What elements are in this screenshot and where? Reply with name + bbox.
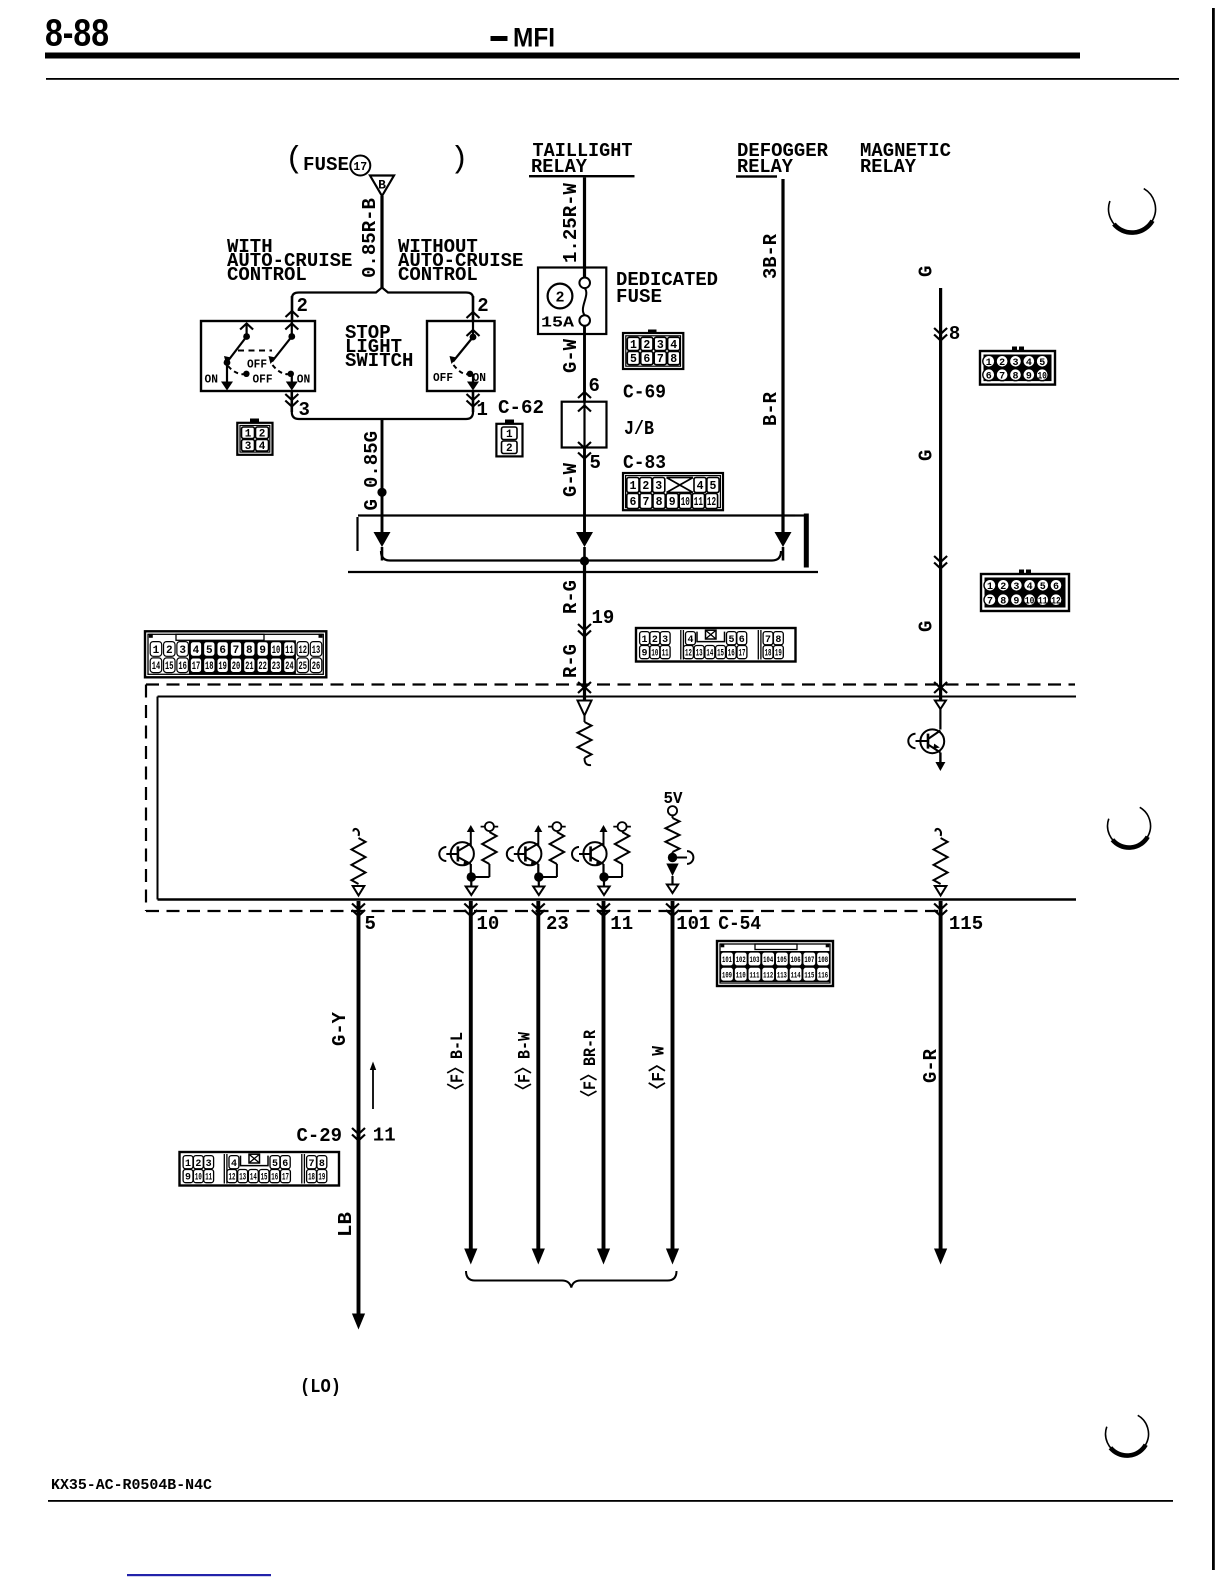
wire <F> B-L bbox=[464, 901, 477, 1265]
ECU pin 23 crossing bbox=[532, 904, 545, 917]
svg-text:12: 12 bbox=[685, 649, 692, 660]
svg-text:17: 17 bbox=[739, 649, 746, 660]
svg-text:10: 10 bbox=[272, 645, 281, 657]
transistor circuit pin 11 bbox=[572, 822, 631, 895]
svg-text:14: 14 bbox=[706, 649, 713, 660]
svg-text:13: 13 bbox=[696, 649, 703, 660]
svg-text:7: 7 bbox=[643, 496, 650, 509]
svg-text:6: 6 bbox=[282, 1159, 288, 1170]
svg-text:12: 12 bbox=[1051, 596, 1061, 607]
svg-text:109: 109 bbox=[722, 970, 732, 980]
svg-text:G-W: G-W bbox=[560, 462, 582, 497]
svg-text:2: 2 bbox=[477, 295, 488, 317]
svg-text:10: 10 bbox=[1025, 596, 1035, 607]
bus junction dot bbox=[580, 556, 589, 565]
svg-text:7: 7 bbox=[765, 635, 771, 646]
svg-text:101: 101 bbox=[722, 955, 732, 965]
svg-text:104: 104 bbox=[763, 955, 773, 965]
svg-text:OFF: OFF bbox=[253, 374, 273, 387]
svg-text:19: 19 bbox=[318, 1173, 325, 1184]
svg-text:14: 14 bbox=[152, 661, 161, 673]
svg-text:8: 8 bbox=[246, 645, 253, 657]
fusible link B symbol bbox=[370, 176, 394, 197]
svg-text:5: 5 bbox=[1040, 582, 1046, 593]
wire <F> B-W bbox=[532, 901, 545, 1265]
svg-text:24: 24 bbox=[285, 661, 294, 673]
svg-text:7: 7 bbox=[999, 371, 1005, 382]
svg-text:7: 7 bbox=[657, 353, 664, 366]
svg-text:10: 10 bbox=[477, 913, 500, 935]
svg-text:9: 9 bbox=[669, 496, 676, 509]
svg-text:10: 10 bbox=[1037, 371, 1047, 382]
connector C-69 bbox=[623, 330, 683, 370]
connector C-54 bbox=[717, 941, 833, 986]
svg-text:12: 12 bbox=[298, 645, 307, 657]
svg-text:1: 1 bbox=[987, 582, 993, 593]
wire through JB bbox=[578, 402, 591, 448]
svg-text:6: 6 bbox=[643, 353, 650, 366]
svg-text:10: 10 bbox=[651, 649, 658, 660]
svg-text:SWITCH: SWITCH bbox=[345, 350, 413, 372]
wire 0.85R-B from fuse bbox=[380, 196, 383, 289]
svg-text:1: 1 bbox=[642, 635, 648, 646]
svg-text:10: 10 bbox=[195, 1173, 202, 1184]
svg-text:101: 101 bbox=[676, 913, 710, 935]
stop light switch box without a/c bbox=[427, 321, 495, 391]
svg-text:5: 5 bbox=[590, 452, 601, 474]
svg-text:CONTROL: CONTROL bbox=[227, 264, 307, 286]
svg-text:ON: ON bbox=[297, 374, 311, 387]
svg-text:3: 3 bbox=[662, 635, 668, 646]
svg-text:C-62: C-62 bbox=[498, 397, 544, 419]
svg-text:8: 8 bbox=[1000, 596, 1006, 607]
svg-text:1: 1 bbox=[477, 399, 488, 421]
bus top rail bbox=[358, 516, 796, 552]
svg-text:4: 4 bbox=[259, 441, 266, 453]
svg-text:4: 4 bbox=[193, 645, 200, 657]
switch pole (without a/c) bbox=[450, 321, 480, 391]
svg-text:ON: ON bbox=[205, 374, 219, 387]
svg-text:15: 15 bbox=[261, 1173, 268, 1184]
svg-text:8: 8 bbox=[656, 496, 663, 509]
svg-text:103: 103 bbox=[749, 955, 759, 965]
svg-text:2: 2 bbox=[1000, 582, 1006, 593]
svg-text:11: 11 bbox=[662, 649, 669, 660]
connector 4-pin (stop light switch) bbox=[237, 419, 272, 455]
svg-text:2: 2 bbox=[297, 295, 308, 317]
svg-text:5: 5 bbox=[272, 1159, 278, 1170]
svg-text:7: 7 bbox=[233, 645, 240, 657]
svg-text:OFF: OFF bbox=[247, 359, 267, 372]
svg-text:1: 1 bbox=[185, 1159, 191, 1170]
direction arrow up bbox=[370, 1062, 376, 1110]
svg-text:114: 114 bbox=[791, 970, 801, 980]
svg-text:2: 2 bbox=[166, 645, 173, 657]
ECU pin 11 crossing bbox=[597, 904, 610, 917]
fuse label (FUSE 17) bbox=[285, 142, 469, 177]
diode D1 bbox=[374, 532, 391, 561]
connector 12-pin circled bbox=[981, 570, 1069, 612]
footer rule bbox=[48, 1500, 1173, 1502]
resistor pull-down R-G bbox=[578, 716, 592, 766]
svg-text:4: 4 bbox=[687, 635, 693, 646]
svg-text:4: 4 bbox=[697, 480, 704, 493]
svg-text:9: 9 bbox=[642, 649, 648, 660]
dedicated fuse box bbox=[538, 268, 606, 335]
svg-text:6: 6 bbox=[739, 635, 745, 646]
svg-text:0.85R-B: 0.85R-B bbox=[359, 198, 381, 278]
svg-text:4: 4 bbox=[231, 1159, 237, 1170]
svg-text:22: 22 bbox=[258, 661, 267, 673]
svg-text:(LO): (LO) bbox=[300, 1376, 341, 1398]
svg-text:19: 19 bbox=[218, 661, 227, 673]
svg-text:11: 11 bbox=[610, 913, 633, 935]
svg-text:105: 105 bbox=[777, 955, 787, 965]
svg-text:RELAY: RELAY bbox=[737, 156, 794, 178]
svg-text:C-29: C-29 bbox=[297, 1125, 343, 1147]
svg-text:6: 6 bbox=[1053, 582, 1059, 593]
wire G-W below JB pin 5 bbox=[578, 448, 591, 534]
svg-text:2: 2 bbox=[506, 443, 513, 455]
brace under F wires bbox=[466, 1271, 677, 1288]
wire right branch pin 2 bbox=[467, 296, 480, 321]
svg-text:5: 5 bbox=[1039, 358, 1045, 369]
ECU pin 101 crossing bbox=[666, 904, 679, 917]
svg-text:108: 108 bbox=[818, 955, 828, 965]
scan artifact crescent bottom bbox=[1106, 1415, 1149, 1455]
svg-text:): ) bbox=[450, 142, 469, 177]
wire <F> W bbox=[666, 901, 679, 1265]
svg-text:4: 4 bbox=[670, 339, 677, 352]
resistor ECU pin 115 bbox=[934, 829, 948, 896]
bus bottom rail bbox=[381, 551, 781, 561]
switch mechanical link dashed bbox=[238, 350, 272, 352]
wire pin 3 below switch bbox=[285, 391, 298, 412]
svg-text:3: 3 bbox=[1012, 358, 1018, 369]
svg-text:RELAY: RELAY bbox=[531, 156, 588, 178]
svg-text:21: 21 bbox=[245, 661, 254, 673]
svg-text:2: 2 bbox=[642, 480, 649, 493]
svg-text:20: 20 bbox=[232, 661, 241, 673]
ECU input arrow G bbox=[934, 682, 947, 730]
svg-text:3: 3 bbox=[299, 399, 310, 421]
resistor ECU pin 5 bbox=[352, 829, 366, 896]
diode D3 bbox=[775, 532, 792, 561]
svg-text:CONTROL: CONTROL bbox=[398, 264, 478, 286]
svg-text:G-W: G-W bbox=[560, 338, 582, 373]
svg-text:RELAY: RELAY bbox=[860, 156, 917, 178]
page right border bbox=[1212, 8, 1215, 1570]
header title MFI bbox=[491, 23, 556, 53]
label STOP LIGHT SWITCH bbox=[345, 322, 413, 372]
svg-text:11: 11 bbox=[285, 645, 294, 657]
svg-text:3: 3 bbox=[245, 441, 252, 453]
svg-text:106: 106 bbox=[791, 955, 801, 965]
svg-text:107: 107 bbox=[804, 955, 814, 965]
wire pin 1 below switch bbox=[467, 391, 480, 412]
svg-text:FUSE: FUSE bbox=[303, 154, 349, 176]
svg-text:6: 6 bbox=[589, 375, 600, 397]
connector 26-pin bbox=[145, 631, 326, 677]
svg-text:G: G bbox=[916, 266, 938, 277]
svg-text:9: 9 bbox=[185, 1173, 191, 1184]
label TAILLIGHT RELAY bbox=[529, 140, 635, 178]
header thin rule bbox=[46, 78, 1179, 80]
svg-text:FUSE: FUSE bbox=[616, 286, 662, 308]
ECU pin 115 crossing bbox=[934, 904, 947, 917]
svg-text:113: 113 bbox=[777, 970, 787, 980]
svg-text:G: G bbox=[916, 450, 938, 461]
svg-text:6: 6 bbox=[986, 371, 992, 382]
wire merge bracket bbox=[292, 412, 473, 419]
svg-text:5: 5 bbox=[630, 353, 637, 366]
svg-text:11: 11 bbox=[694, 496, 703, 509]
svg-text:17: 17 bbox=[353, 161, 367, 174]
wire stem 0.85G bbox=[381, 419, 384, 533]
ECU inner solid border bbox=[158, 697, 1077, 900]
svg-text:R-G: R-G bbox=[560, 580, 582, 614]
svg-text:10: 10 bbox=[681, 496, 690, 509]
connector 19-pin (ECU pin 19) bbox=[636, 628, 796, 662]
svg-text:8: 8 bbox=[775, 635, 781, 646]
switch dashed arc left pole bbox=[228, 366, 250, 377]
svg-text:C-54: C-54 bbox=[718, 913, 761, 935]
scan artifact crescent middle bbox=[1108, 807, 1151, 847]
label MAGNETIC RELAY bbox=[860, 140, 951, 178]
svg-text:ON: ON bbox=[473, 372, 487, 385]
switch pole right (with a/c) bbox=[269, 321, 299, 391]
svg-text:0.85G: 0.85G bbox=[361, 431, 383, 488]
svg-text:5: 5 bbox=[206, 645, 213, 657]
svg-text:4: 4 bbox=[1026, 358, 1032, 369]
svg-text:(: ( bbox=[285, 142, 304, 177]
svg-text:16: 16 bbox=[178, 661, 187, 673]
wire G-W fuse to JB bbox=[578, 326, 591, 402]
label WITH AUTO-CRUISE CONTROL bbox=[227, 236, 352, 286]
svg-text:4: 4 bbox=[1027, 582, 1033, 593]
svg-text:2: 2 bbox=[555, 290, 564, 307]
wire 1.25R-W bbox=[583, 178, 586, 278]
svg-text:C-69: C-69 bbox=[623, 382, 666, 404]
svg-text:G-R: G-R bbox=[920, 1048, 942, 1083]
svg-text:18: 18 bbox=[765, 649, 772, 660]
svg-text:1: 1 bbox=[986, 358, 992, 369]
svg-text:1: 1 bbox=[630, 339, 637, 352]
svg-text:OFF: OFF bbox=[433, 372, 453, 385]
svg-text:11: 11 bbox=[373, 1125, 396, 1147]
svg-text:1: 1 bbox=[506, 429, 513, 441]
transistor circuit pin 10 bbox=[439, 822, 498, 895]
ECU dashed border bbox=[146, 685, 1075, 912]
svg-text:G: G bbox=[361, 499, 383, 510]
svg-text:19: 19 bbox=[775, 649, 782, 660]
svg-text:9: 9 bbox=[259, 645, 266, 657]
junction block J/B box bbox=[562, 402, 607, 448]
wire G-R pin 115 bbox=[934, 901, 947, 1265]
svg-text:3: 3 bbox=[655, 480, 662, 493]
svg-text:8: 8 bbox=[949, 323, 960, 345]
svg-text:5: 5 bbox=[728, 635, 734, 646]
transistor Q1 magnetic relay bbox=[908, 729, 945, 771]
ECU pin 10 crossing bbox=[464, 904, 477, 917]
wire 3B-R defogger bbox=[781, 179, 784, 533]
svg-text:12: 12 bbox=[229, 1173, 236, 1184]
svg-text:16: 16 bbox=[271, 1173, 278, 1184]
bus right corner bar bbox=[795, 514, 809, 568]
svg-text:7: 7 bbox=[309, 1159, 315, 1170]
svg-text:102: 102 bbox=[736, 955, 746, 965]
svg-text:11: 11 bbox=[1038, 596, 1048, 607]
svg-text:25: 25 bbox=[298, 661, 307, 673]
svg-text:B-R: B-R bbox=[760, 391, 782, 426]
svg-text:〈F〉B-W: 〈F〉B-W bbox=[514, 1032, 536, 1098]
svg-text:23: 23 bbox=[272, 661, 281, 673]
footer blue line artifact bbox=[127, 1574, 271, 1576]
wire R-G ECU crossing bbox=[578, 682, 591, 701]
svg-text:LB: LB bbox=[335, 1212, 357, 1237]
svg-text:〈F〉B-L: 〈F〉B-L bbox=[446, 1032, 468, 1098]
svg-text:3B-R: 3B-R bbox=[760, 233, 782, 279]
svg-text:13: 13 bbox=[312, 645, 321, 657]
svg-text:R-G: R-G bbox=[560, 644, 582, 678]
svg-text:5: 5 bbox=[710, 480, 717, 493]
wire split bracket bbox=[292, 288, 473, 299]
svg-text:11: 11 bbox=[205, 1173, 212, 1184]
svg-text:〈F〉BR-R: 〈F〉BR-R bbox=[579, 1030, 601, 1105]
ECU input arrow R-G bbox=[578, 701, 592, 716]
ECU pin 5 crossing bbox=[352, 904, 365, 917]
svg-text:9: 9 bbox=[1026, 371, 1032, 382]
svg-text:G-Y: G-Y bbox=[329, 1011, 351, 1046]
switch pole left (with a/c) bbox=[221, 323, 253, 391]
svg-text:3: 3 bbox=[206, 1159, 212, 1170]
fuse element symbol bbox=[579, 278, 590, 326]
svg-text:110: 110 bbox=[736, 970, 746, 980]
svg-text:J/B: J/B bbox=[624, 418, 654, 440]
svg-text:116: 116 bbox=[818, 970, 828, 980]
wire G-Y pin 5 to C-29 bbox=[352, 901, 365, 1330]
svg-text:18: 18 bbox=[308, 1173, 315, 1184]
svg-text:3: 3 bbox=[657, 339, 664, 352]
junction dot stem bbox=[377, 488, 386, 497]
svg-text:2: 2 bbox=[999, 358, 1005, 369]
label DEDICATED FUSE bbox=[616, 269, 718, 308]
scan artifact crescent top bbox=[1109, 189, 1156, 233]
svg-text:111: 111 bbox=[749, 970, 759, 980]
header thick rule bbox=[45, 53, 1080, 59]
svg-text:15: 15 bbox=[717, 649, 724, 660]
svg-text:1.25R-W: 1.25R-W bbox=[560, 182, 582, 263]
wire R-G pin 19 bbox=[578, 561, 591, 684]
svg-text:8: 8 bbox=[670, 353, 677, 366]
svg-text:26: 26 bbox=[312, 661, 321, 673]
svg-text:B: B bbox=[378, 178, 386, 193]
svg-text:23: 23 bbox=[546, 913, 569, 935]
svg-text:18: 18 bbox=[205, 661, 214, 673]
label DEFOGGER RELAY bbox=[736, 140, 829, 178]
connector C-29 bbox=[180, 1152, 340, 1186]
svg-text:G: G bbox=[916, 621, 938, 632]
connector C-62 symbol bbox=[496, 420, 522, 457]
svg-text:3: 3 bbox=[1013, 582, 1019, 593]
svg-text:MFI: MFI bbox=[513, 23, 555, 53]
svg-text:5: 5 bbox=[365, 913, 376, 935]
svg-text:17: 17 bbox=[282, 1173, 289, 1184]
connector 10-pin circled bbox=[980, 347, 1055, 385]
svg-text:115: 115 bbox=[804, 970, 814, 980]
bus lower long line bbox=[348, 571, 818, 573]
svg-text:16: 16 bbox=[728, 649, 735, 660]
wire G magnetic relay bbox=[934, 288, 947, 701]
transistor circuit pin 23 bbox=[507, 822, 566, 895]
connector C-83 bbox=[623, 473, 723, 510]
svg-text:2: 2 bbox=[195, 1159, 201, 1170]
svg-text:KX35-AC-R0504B-N4C: KX35-AC-R0504B-N4C bbox=[51, 1478, 212, 1494]
5V supply circuit pin 101 bbox=[664, 790, 694, 893]
wire left branch pin 2 bbox=[286, 296, 299, 321]
svg-text:19: 19 bbox=[592, 607, 615, 629]
label WITHOUT AUTO-CRUISE CONTROL bbox=[398, 236, 523, 286]
svg-text:12: 12 bbox=[707, 496, 716, 509]
svg-text:9: 9 bbox=[1013, 596, 1019, 607]
svg-text:115: 115 bbox=[949, 913, 983, 935]
svg-text:6: 6 bbox=[629, 496, 636, 509]
svg-text:15A: 15A bbox=[541, 316, 574, 332]
svg-text:3: 3 bbox=[179, 645, 186, 657]
svg-text:15: 15 bbox=[165, 661, 174, 673]
svg-text:112: 112 bbox=[763, 970, 773, 980]
svg-text:C-83: C-83 bbox=[623, 452, 666, 474]
svg-text:17: 17 bbox=[192, 661, 201, 673]
svg-text:〈F〉W: 〈F〉W bbox=[648, 1046, 670, 1098]
svg-text:8: 8 bbox=[319, 1159, 325, 1170]
wire <F> BR-R bbox=[597, 901, 610, 1265]
svg-text:8: 8 bbox=[1012, 371, 1018, 382]
fuse number circled 2 bbox=[548, 284, 573, 309]
svg-text:1: 1 bbox=[153, 645, 160, 657]
stop light switch box with auto-cruise bbox=[201, 321, 315, 391]
svg-text:7: 7 bbox=[987, 596, 993, 607]
svg-text:8-88: 8-88 bbox=[45, 13, 109, 55]
svg-text:6: 6 bbox=[219, 645, 226, 657]
svg-text:2: 2 bbox=[652, 635, 658, 646]
svg-text:1: 1 bbox=[629, 480, 636, 493]
svg-text:13: 13 bbox=[239, 1173, 246, 1184]
svg-text:14: 14 bbox=[250, 1173, 257, 1184]
svg-text:2: 2 bbox=[643, 339, 650, 352]
diode D2 bbox=[576, 532, 593, 561]
